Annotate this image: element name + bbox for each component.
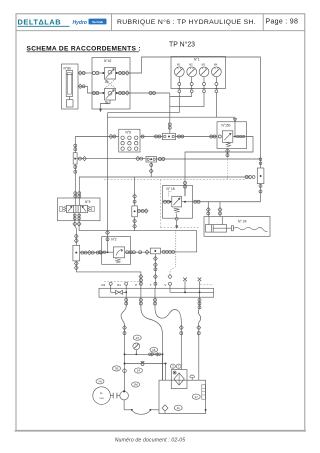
svg-text:R2: R2 xyxy=(102,283,106,287)
svg-text:SCHEMA DE RACCORDEMENTS :: SCHEMA DE RACCORDEMENTS : xyxy=(27,45,141,52)
svg-text:7A: 7A xyxy=(98,379,102,383)
svg-text:N°42: N°42 xyxy=(104,59,112,63)
svg-text:Hydro: Hydro xyxy=(73,20,87,26)
svg-text:Numéro de document : 02-05: Numéro de document : 02-05 xyxy=(115,438,186,444)
svg-text:3~: 3~ xyxy=(100,391,104,395)
svg-text:N°1: N°1 xyxy=(194,58,200,62)
svg-text:M3: M3 xyxy=(202,63,206,66)
svg-text:13: 13 xyxy=(136,336,140,340)
svg-text:V: V xyxy=(164,283,166,287)
svg-text:17: 17 xyxy=(195,395,199,399)
svg-text:N°2: N°2 xyxy=(111,238,117,242)
svg-text:RUBRIQUE N°6 : TP HYDRAULIQUE: RUBRIQUE N°6 : TP HYDRAULIQUE SH. xyxy=(117,18,256,26)
svg-text:N°150: N°150 xyxy=(222,124,231,128)
svg-text:11: 11 xyxy=(177,406,180,410)
svg-text:N°9: N°9 xyxy=(85,200,91,204)
svg-text:T: T xyxy=(150,283,152,287)
svg-text:R1: R1 xyxy=(117,283,121,287)
svg-text:7: 7 xyxy=(178,364,180,368)
svg-text:DELTΔLAB: DELTΔLAB xyxy=(18,18,62,27)
svg-text:N° 18: N° 18 xyxy=(167,187,175,191)
svg-text:14: 14 xyxy=(137,369,141,373)
svg-text:1M: 1M xyxy=(134,383,139,387)
svg-text:Technik: Technik xyxy=(92,20,103,24)
svg-text:N°80: N°80 xyxy=(64,66,72,70)
svg-text:1500: 1500 xyxy=(99,398,104,400)
svg-text:3: 3 xyxy=(172,364,174,368)
svg-text:N° 24: N° 24 xyxy=(238,220,247,224)
svg-text:N°8: N°8 xyxy=(126,130,132,134)
svg-text:M4: M4 xyxy=(214,63,218,66)
svg-text:M1: M1 xyxy=(177,63,181,66)
svg-text:15: 15 xyxy=(152,348,156,352)
svg-text:M2: M2 xyxy=(189,63,193,66)
svg-text:Page : 98: Page : 98 xyxy=(266,19,299,26)
svg-text:P: P xyxy=(135,283,137,287)
svg-text:7B: 7B xyxy=(115,366,119,370)
svg-text:TP N°23: TP N°23 xyxy=(169,40,195,48)
